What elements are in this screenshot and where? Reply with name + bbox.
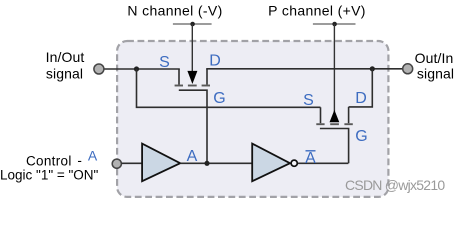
svg-text:G: G [213,90,225,107]
svg-text:In/Out: In/Out [46,49,85,65]
svg-text:Out/In: Out/In [415,50,454,66]
svg-text:D: D [209,53,221,70]
svg-text:A: A [305,150,316,167]
svg-text:S: S [159,54,170,71]
svg-text:S: S [303,92,314,109]
svg-text:A: A [88,147,98,163]
svg-text:N channel (-V): N channel (-V) [127,3,222,19]
svg-text:Logic "1" = "ON": Logic "1" = "ON" [0,168,99,183]
svg-text:P channel (+V): P channel (+V) [268,3,366,19]
svg-text:signal: signal [46,66,83,82]
svg-text:Control: Control [26,153,72,168]
svg-text:-: - [77,153,82,168]
svg-text:G: G [355,128,367,145]
svg-text:D: D [355,90,367,107]
svg-text:CSDN @wjx5210: CSDN @wjx5210 [345,177,445,193]
svg-text:signal: signal [417,66,454,82]
svg-text:A: A [187,148,198,165]
